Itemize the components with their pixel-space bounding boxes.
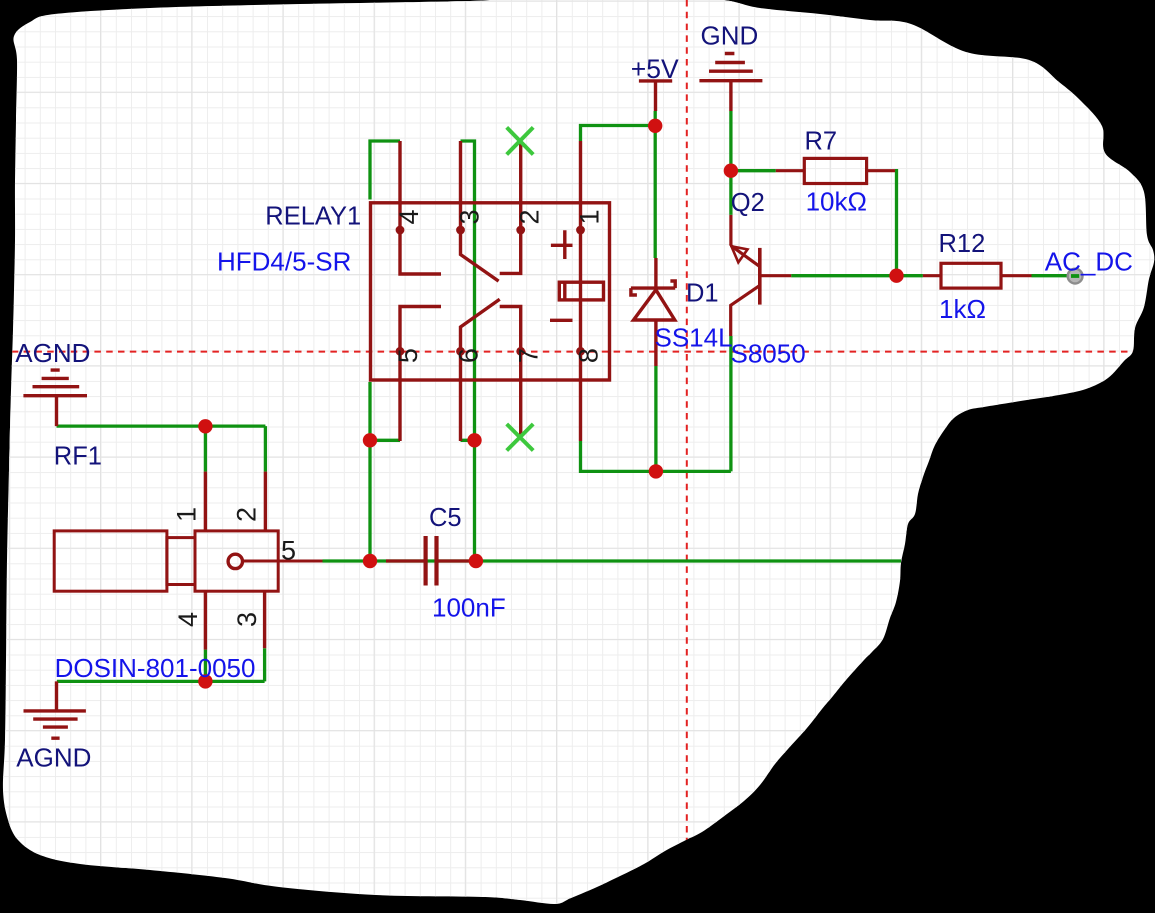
wire relay pin1 to +5V (581, 126, 656, 142)
connector RF1 pin 1 (204, 472, 207, 531)
wire junction to R7 left (731, 169, 776, 172)
svg-text:8: 8 (574, 348, 604, 363)
wire bottom rail (581, 441, 731, 471)
connector RF1 pin 4 (204, 591, 207, 649)
svg-text:5: 5 (393, 348, 423, 363)
wire AGND1 to connector pins 1,2 (57, 426, 266, 472)
wire connector pins 3,4 to AGND2 (57, 648, 265, 681)
relay pin 3 (459, 141, 462, 230)
svg-text:DOSIN-801-0050: DOSIN-801-0050 (55, 653, 256, 683)
connector RF1 pin 3 (263, 591, 266, 648)
relay contact pin7 L (500, 307, 521, 352)
relay coil minus mark (550, 319, 573, 322)
relay pin numbers (393, 209, 605, 363)
wire R7 right down to base node (895, 171, 897, 276)
svg-text:SS14L: SS14L (655, 322, 733, 352)
resistor R12 (923, 263, 1032, 288)
ground GND (699, 54, 762, 112)
wire relay pin4 to left rail (370, 141, 400, 561)
relay pin 4 (398, 141, 401, 230)
relay pin 6 (459, 351, 462, 441)
svg-text:+5V: +5V (631, 54, 679, 84)
svg-text:4: 4 (173, 612, 203, 627)
relay contact pin2 L (500, 230, 521, 273)
relay coil plus mark (551, 230, 573, 259)
wire R12 to AC_DC port (1032, 274, 1069, 277)
svg-text:RELAY1: RELAY1 (265, 203, 361, 231)
svg-text:3: 3 (455, 209, 485, 224)
relay switch arm pin3 (461, 230, 499, 281)
no-connect X pin2 (507, 127, 534, 154)
power +5V (639, 81, 672, 111)
origin crosshair vertical (686, 0, 688, 840)
relay coil wire (579, 230, 582, 351)
wire main horizontal net (323, 559, 902, 562)
relay RELAY1 body (371, 203, 610, 380)
port AC_DC (1068, 269, 1083, 284)
svg-text:AGND: AGND (16, 743, 91, 773)
svg-text:3: 3 (232, 612, 262, 627)
svg-text:10kΩ: 10kΩ (806, 187, 867, 217)
relay coil box divider (563, 282, 566, 300)
relay coil box (559, 282, 603, 300)
relay switch arm pin6 (461, 299, 500, 351)
svg-text:GND: GND (701, 21, 759, 51)
relay pin 5 (398, 351, 401, 441)
svg-text:7: 7 (514, 348, 544, 363)
svg-text:AC_DC: AC_DC (1045, 246, 1133, 276)
connector RF1 body (54, 531, 322, 591)
svg-text:R7: R7 (805, 127, 838, 155)
svg-text:RF1: RF1 (54, 443, 102, 471)
origin crosshair horizontal (0, 351, 1134, 353)
wire diode bottom (654, 366, 657, 471)
relay pin 1 (579, 141, 582, 230)
connector RF1 pin 2 (264, 472, 267, 531)
svg-text:AGND: AGND (15, 338, 90, 368)
wire GND to Q2 emitter (729, 111, 732, 215)
resistor R7 (776, 158, 895, 183)
svg-text:5: 5 (281, 536, 296, 566)
no-connect X pin7 (507, 424, 534, 451)
wire relay pin3 rail (461, 141, 475, 561)
relay pin 2 (519, 141, 522, 230)
svg-text:4: 4 (394, 209, 424, 224)
svg-text:2: 2 (231, 507, 261, 522)
svg-text:6: 6 (454, 348, 484, 363)
transistor Q2 (731, 215, 792, 336)
relay pin 7 (519, 351, 522, 437)
relay contact pin4 L (400, 230, 441, 274)
relay pin dots (396, 226, 585, 356)
svg-text:Q2: Q2 (731, 189, 765, 217)
svg-text:1: 1 (575, 209, 605, 224)
diode D1 (631, 258, 675, 366)
wire +5V to diode (654, 111, 657, 258)
wire Q2 base to R12 (791, 274, 923, 277)
relay contact pin5 L (400, 307, 441, 352)
svg-text:2: 2 (515, 209, 545, 224)
svg-text:D1: D1 (686, 279, 719, 307)
ground AGND top (23, 370, 87, 426)
ground AGND bottom (24, 681, 86, 738)
svg-text:S8050: S8050 (731, 339, 806, 369)
svg-text:1kΩ: 1kΩ (939, 294, 986, 324)
svg-text:100nF: 100nF (432, 593, 506, 623)
svg-text:HFD4/5-SR: HFD4/5-SR (217, 246, 351, 276)
svg-text:R12: R12 (939, 230, 986, 258)
svg-text:C5: C5 (429, 504, 462, 532)
wire Q2 collector to bottom rail (729, 336, 732, 471)
relay pin 8 (579, 351, 582, 441)
connector pin numbers (171, 507, 296, 627)
capacitor C5 (386, 536, 470, 586)
svg-text:1: 1 (171, 507, 201, 522)
